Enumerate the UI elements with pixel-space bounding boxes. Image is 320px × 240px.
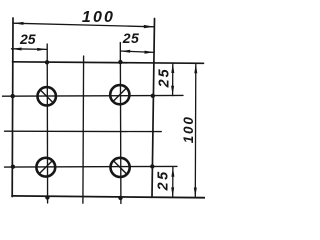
- dimension line 100 (top): [13, 23, 154, 27]
- svg-text:100: 100: [82, 9, 115, 26]
- node dot left edge / row 1: [11, 94, 15, 98]
- dimension line 25 (top left): [12, 48, 48, 51]
- hole column 1 centerline: [46, 44, 48, 203]
- svg-text:25: 25: [122, 30, 140, 46]
- hole top-left circle: [38, 87, 56, 105]
- arrowhead 100 top right: [144, 25, 154, 28]
- svg-text:100: 100: [181, 115, 196, 143]
- node dot bottom edge / column 1: [45, 195, 49, 199]
- node dot bottom edge / column 2: [118, 196, 122, 200]
- hole top-left diagonal: [40, 90, 53, 103]
- node dot right edge / row 1: [151, 94, 155, 98]
- node dot right edge / row 2: [150, 164, 154, 168]
- plate top edge (extended right to 100 dimension): [13, 62, 204, 64]
- plate vertical centerline: [82, 56, 85, 203]
- hole column 2 centerline: [119, 43, 122, 204]
- svg-text:25: 25: [19, 31, 36, 47]
- arrowhead 25 right-lower down: [171, 187, 174, 197]
- hole bottom-left circle: [36, 158, 55, 177]
- hole row 1 centerline: [3, 94, 184, 97]
- dimension line 25 (right upper): [172, 63, 174, 96]
- hole bottom-left diagonal: [39, 161, 52, 174]
- arrowhead 25 top-right right: [145, 51, 155, 54]
- arrowhead 25 top-left right: [37, 48, 47, 51]
- plate horizontal centerline: [5, 130, 162, 132]
- plate right edge (with extension up to top dimension): [152, 19, 155, 197]
- arrowhead 100 top left: [13, 22, 23, 25]
- svg-text:25: 25: [155, 169, 171, 191]
- arrowhead 25 right-upper down: [171, 86, 174, 96]
- dimension line 25 (right lower): [172, 167, 174, 197]
- arrowhead 25 right-lower up: [171, 167, 174, 177]
- hole top-right diagonal: [113, 88, 127, 102]
- hole top-right circle: [110, 85, 129, 104]
- node dot left edge / row 2: [11, 165, 15, 169]
- arrowhead 100 right down: [194, 188, 197, 198]
- hole bottom-right circle: [111, 158, 130, 177]
- arrowhead 25 top-left left: [12, 48, 22, 51]
- plate bottom edge (extended right to 100 dimension): [12, 196, 205, 198]
- plate left edge (with extension up to top dimension): [11, 18, 14, 197]
- dimension line 100 (right): [194, 63, 197, 197]
- node dot top edge / column 1: [45, 60, 49, 64]
- hole row 2 centerline: [5, 165, 178, 168]
- svg-text:25: 25: [156, 67, 172, 88]
- dimension line 25 (top right): [121, 51, 155, 52]
- arrowhead 100 right up: [194, 63, 197, 73]
- arrowhead 25 right-upper up: [171, 63, 174, 73]
- hole bottom-right diagonal: [113, 161, 127, 175]
- arrowhead 25 top-right left: [121, 50, 131, 53]
- node dot top edge / column 2: [118, 60, 122, 64]
